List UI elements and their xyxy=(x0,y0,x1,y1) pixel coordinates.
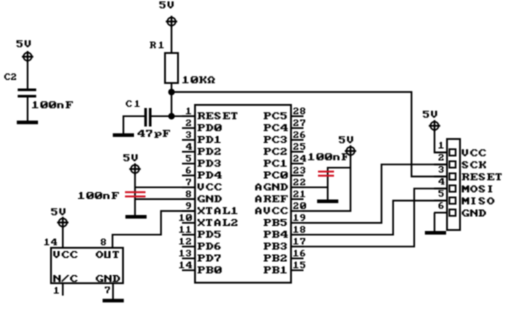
IC pin 7 number xyxy=(186,179,191,186)
IC pin 22 number xyxy=(293,179,305,186)
oscillator Q1 body xyxy=(51,248,123,283)
value 100nF (C4) xyxy=(308,153,349,160)
ISP label RESET xyxy=(462,173,502,180)
IC pin 21 number xyxy=(293,191,305,198)
ISP label SCK xyxy=(462,161,486,168)
IC pin 7 label VCC xyxy=(198,183,222,190)
IC pin 28 stub xyxy=(291,115,304,117)
IC pin 8 number xyxy=(186,191,191,198)
IC pin 23 number xyxy=(293,167,305,174)
IC pin 9 stub xyxy=(182,210,195,212)
IC pin 15 label PB1 xyxy=(264,266,287,273)
IC pin 5 number xyxy=(186,155,191,162)
ISP pin 4 number xyxy=(439,178,445,185)
IC pin 5 label PD3 xyxy=(198,160,221,167)
IC pin 13 number xyxy=(179,250,191,257)
power 5V (R1) xyxy=(166,16,177,27)
IC pin 9 number xyxy=(186,202,191,209)
ISP pin 3 number xyxy=(439,166,444,173)
capacitor C2 xyxy=(18,90,37,96)
label C1 xyxy=(126,100,140,107)
IC pin 15 stub xyxy=(291,269,304,271)
IC pin 20 label AVCC xyxy=(255,207,288,214)
capacitor C4 100nF (red) xyxy=(318,172,334,176)
wire GND pin 8 xyxy=(135,198,195,200)
label R1 xyxy=(150,42,164,49)
IC pin 25 label PC2 xyxy=(264,148,287,155)
IC pin 12 label PD6 xyxy=(198,243,221,250)
IC pin 16 number xyxy=(293,250,305,257)
wire C1 left to ground xyxy=(123,116,144,133)
IC pin 6 stub xyxy=(182,174,195,176)
IC pin 4 number xyxy=(186,143,192,150)
ISP label MISO xyxy=(462,197,495,204)
IC pin 23 label PC0 xyxy=(264,172,288,179)
IC pin 4 stub xyxy=(182,151,195,153)
IC pin 14 number xyxy=(179,262,192,269)
label 5V (VCC) xyxy=(123,154,137,161)
wire 5V vertical to ground (C3) xyxy=(134,173,136,215)
IC pin 20 number xyxy=(293,202,306,209)
IC pin 1 number xyxy=(186,108,191,115)
power 5V (AVCC) xyxy=(345,145,356,156)
IC pin 9 label XTAL1 xyxy=(198,207,238,214)
wire 5V to R1 xyxy=(171,26,173,54)
oscillator pin 14 number xyxy=(44,239,57,246)
IC pin 11 number xyxy=(179,226,191,233)
IC pin 13 label PD7 xyxy=(198,255,221,262)
wire oscillator GND xyxy=(112,283,114,299)
IC pin 19 number xyxy=(293,214,305,221)
IC pin 17 stub xyxy=(291,246,304,248)
ground (C4) xyxy=(317,200,338,204)
oscillator pin 1 number xyxy=(54,287,59,294)
power 5V (ISP) xyxy=(429,120,440,131)
IC pin 12 stub xyxy=(182,246,195,248)
oscillator label VCC xyxy=(53,251,77,258)
wire MISO net (PB4) xyxy=(303,201,447,235)
IC pin 22 label AGND xyxy=(255,183,288,190)
value 47pF (C1) xyxy=(138,130,171,138)
IC pin 18 number xyxy=(293,226,305,233)
IC pin 10 label XTAL2 xyxy=(198,219,238,226)
IC pin 8 label GND xyxy=(198,195,222,202)
IC pin 27 number xyxy=(293,119,305,126)
value 10Kohm (R1) xyxy=(182,76,215,83)
label 5V (AVCC) xyxy=(339,136,353,143)
ground (C2) xyxy=(17,121,38,125)
IC pin 1 label RESET xyxy=(198,112,238,119)
IC pin 7 stub xyxy=(182,186,195,188)
capacitor C1 xyxy=(146,108,151,127)
wire C1 to pin 1 xyxy=(151,115,195,117)
ISP label MOSI xyxy=(462,185,492,192)
ISP pin 2 number xyxy=(439,154,444,161)
IC pin 22 stub xyxy=(291,186,304,188)
IC pin 2 label PD0 xyxy=(198,124,222,131)
ISP connector SV1 body xyxy=(447,139,460,230)
ground (ISP) xyxy=(425,231,446,235)
capacitor C3 100nF (red) xyxy=(125,192,146,196)
ISP connector pads xyxy=(449,149,455,216)
IC U1 ATmega body xyxy=(195,105,291,283)
IC pin 3 label PD1 xyxy=(198,136,221,143)
IC pin 23 stub xyxy=(291,174,304,176)
label 5V (C2) xyxy=(16,40,30,47)
wire R1 to node B xyxy=(171,83,173,116)
wire VCC pin 7 xyxy=(135,186,195,188)
ground (C3) xyxy=(125,215,146,219)
IC pin 12 number xyxy=(179,238,191,245)
IC pin 27 label PC4 xyxy=(264,124,288,131)
value 100nF (C2) xyxy=(32,101,73,108)
power 5V (VCC) xyxy=(129,163,140,174)
oscillator label N/C xyxy=(53,275,77,282)
IC pin 4 label PD2 xyxy=(198,148,221,155)
wire 5V to AVCC pin 20 xyxy=(303,155,351,211)
wire AGND pin 22 xyxy=(303,186,328,188)
IC pin 16 stub xyxy=(291,257,304,259)
oscillator label GND xyxy=(96,275,120,282)
IC pin 19 stub xyxy=(291,222,304,224)
IC pin 16 label PB2 xyxy=(264,255,287,262)
label 5V (R1) xyxy=(159,1,173,8)
IC pin 6 label PD4 xyxy=(198,172,222,179)
IC pin 18 stub xyxy=(291,234,304,236)
wire OUT to XTAL1 xyxy=(113,211,196,248)
ISP label GND xyxy=(462,209,486,216)
value 100nF (C3) xyxy=(78,192,119,199)
ISP pin 5 number xyxy=(439,190,444,197)
ground (C1) xyxy=(113,133,134,137)
oscillator pin 1 stub xyxy=(62,283,64,295)
IC pin 24 stub xyxy=(291,163,304,165)
power 5V (C2) xyxy=(22,51,33,62)
IC pin 25 stub xyxy=(291,151,304,153)
wire 5V to oscillator VCC xyxy=(62,227,64,248)
IC pin 3 number xyxy=(186,131,191,138)
oscillator label OUT xyxy=(96,251,119,258)
IC pin 3 stub xyxy=(182,139,195,141)
IC pin 11 label PD5 xyxy=(198,231,221,238)
junction node B (RESET/C1) xyxy=(168,113,175,120)
resistor R1 xyxy=(165,53,178,83)
ISP connector stubs xyxy=(434,152,447,212)
wire MOSI net (PB3) xyxy=(303,189,447,247)
junction node A (R1/RESET) xyxy=(168,89,175,96)
ISP label VCC xyxy=(462,149,486,156)
oscillator pin 7 number xyxy=(105,287,110,294)
IC pin 21 stub xyxy=(291,198,304,200)
IC pin 26 number xyxy=(293,131,305,138)
IC pin 17 number xyxy=(293,238,305,245)
IC pin 2 stub xyxy=(182,127,195,129)
IC pin 28 label PC5 xyxy=(264,112,287,119)
wire 5V to ISP pin 1 xyxy=(435,130,448,153)
IC pin 26 stub xyxy=(291,139,304,141)
IC pin 15 number xyxy=(293,262,305,269)
label C2 xyxy=(4,73,16,80)
IC pin 14 stub xyxy=(182,269,195,271)
IC pin 5 stub xyxy=(182,163,195,165)
IC pin 10 number xyxy=(179,214,192,221)
IC pin 6 number xyxy=(186,167,191,174)
wire C2 to ground xyxy=(27,98,29,122)
label 5V (oscillator) xyxy=(51,208,65,215)
IC pin 21 label AREF xyxy=(255,195,288,202)
label 5V (ISP) xyxy=(423,111,437,118)
IC pin 24 number xyxy=(293,155,306,162)
wire AVCC branch to C4 xyxy=(328,168,351,200)
IC pin 24 label PC1 xyxy=(264,160,287,167)
ISP pin 6 number xyxy=(439,202,444,209)
wire 5V to C2 xyxy=(27,61,29,90)
ISP pin 1 number xyxy=(439,142,444,149)
IC pin 11 stub xyxy=(182,234,195,236)
wire ISP GND to ground xyxy=(434,213,436,232)
IC pin 28 number xyxy=(293,108,305,115)
IC pin 18 label PB4 xyxy=(264,231,288,238)
IC pin 1 stub xyxy=(182,115,195,117)
ground (oscillator) xyxy=(103,299,124,303)
power 5V (oscillator) xyxy=(57,217,68,228)
wire RESET net to ISP xyxy=(172,92,448,177)
IC pin 13 stub xyxy=(182,257,195,259)
oscillator pin 8 number xyxy=(101,239,106,246)
IC pin 25 number xyxy=(293,143,305,150)
IC pin 20 stub xyxy=(291,210,304,212)
IC pin 2 number xyxy=(186,119,191,126)
wire SCK net (PB5) xyxy=(303,164,447,222)
IC pin 27 stub xyxy=(291,127,304,129)
IC pin 14 label PB0 xyxy=(198,266,222,273)
IC pin 26 label PC3 xyxy=(264,136,287,143)
IC pin 10 stub xyxy=(182,222,195,224)
IC pin 19 label PB5 xyxy=(264,219,287,226)
IC pin 17 label PB3 xyxy=(264,243,287,250)
IC pin 8 stub xyxy=(182,198,195,200)
